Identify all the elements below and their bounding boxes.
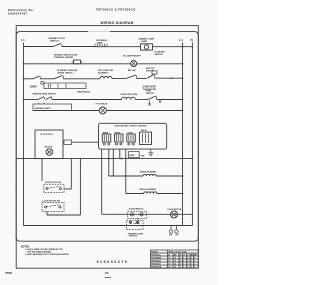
svg-text:1: 1: [191, 267, 192, 269]
svg-text:SURFACE UNITS: SURFACE UNITS: [35, 107, 52, 110]
svg-text:( BAKE / BROIL ): ( BAKE / BROIL ): [57, 72, 74, 75]
svg-text:DOOR SWITCH: DOOR SWITCH: [129, 208, 144, 210]
svg-text:BAKE ELEM.: BAKE ELEM.: [78, 90, 91, 93]
svg-text:POT. RELAY: POT. RELAY: [96, 103, 109, 106]
svg-text:1: 1: [183, 261, 184, 263]
svg-text:MOTOR: MOTOR: [45, 147, 53, 149]
svg-text:SWITCH: SWITCH: [155, 54, 164, 56]
svg-text:MODEL: MODEL: [151, 252, 159, 254]
svg-text:L1: L1: [21, 38, 25, 42]
svg-text:SWITCH: SWITCH: [146, 70, 154, 72]
svg-text:316000270: 316000270: [97, 260, 129, 264]
svg-text:FEF350CA: FEF350CA: [151, 260, 161, 263]
svg-text:CABINET LIGHT: CABINET LIGHT: [48, 37, 66, 40]
svg-text:SWITCH: SWITCH: [129, 236, 137, 238]
svg-text:ELECTRONIC OVEN CONTROL: ELECTRONIC OVEN CONTROL: [115, 126, 148, 128]
svg-text:ELEMENT: ELEMENT: [98, 72, 109, 74]
svg-text:2: 2: [187, 264, 188, 266]
svg-text:FEF350CC: FEF350CC: [151, 255, 161, 257]
svg-text:CLOCK TOD: CLOCK TOD: [40, 134, 53, 136]
svg-text:1: 1: [180, 267, 181, 269]
svg-text:N: N: [191, 38, 193, 42]
svg-text:2: 2: [194, 267, 195, 269]
svg-text:2: 2: [187, 267, 188, 269]
svg-text:OVEN VENT FAN: OVEN VENT FAN: [121, 93, 138, 96]
svg-text:WIRING DIAGRAM: WIRING DIAGRAM: [101, 21, 134, 25]
svg-text:2: 2: [180, 264, 181, 266]
svg-text:16: 16: [174, 267, 176, 269]
svg-text:BROIL ELEMENT: BROIL ELEMENT: [140, 189, 158, 191]
svg-text:1: 1: [183, 264, 184, 266]
svg-text:2: 2: [194, 261, 195, 263]
svg-text:BAKE ELEMENT: BAKE ELEMENT: [140, 170, 157, 173]
svg-text:1: 1: [191, 264, 192, 266]
svg-text:5995274427: 5995274427: [8, 12, 28, 16]
svg-text:DOOR LOCK SW.: DOOR LOCK SW.: [45, 182, 62, 184]
svg-text:AT LAMP RECEPT.: AT LAMP RECEPT.: [123, 54, 142, 57]
svg-text:SWITCH: SWITCH: [146, 93, 154, 95]
svg-text:1: 1: [191, 261, 192, 263]
svg-text:THERMAL LIMITER: THERMAL LIMITER: [54, 56, 74, 59]
svg-text:GND: GND: [141, 155, 146, 157]
svg-text:FEF350CC & FEF350CO: FEF350CC & FEF350CO: [96, 8, 136, 12]
svg-text:LAMP: LAMP: [141, 40, 148, 43]
svg-text:2: 2: [194, 258, 195, 260]
svg-text:3: 3: [180, 258, 181, 260]
svg-text:3: 3: [194, 264, 195, 266]
svg-text:1: 1: [183, 258, 184, 260]
svg-text:SWITCH: SWITCH: [50, 41, 59, 43]
svg-text:NOTES:: NOTES:: [21, 247, 30, 249]
svg-text:LAMP: LAMP: [97, 41, 104, 44]
svg-text:12: 12: [174, 258, 176, 260]
svg-text:16: 16: [168, 267, 170, 269]
svg-text:FEF350BW: FEF350BW: [151, 258, 161, 260]
svg-text:7588: 7588: [5, 271, 12, 275]
svg-text:3: 3: [187, 261, 188, 263]
svg-text:1: 1: [183, 267, 184, 269]
svg-text:HI BAKE / BROIL ELEM.: HI BAKE / BROIL ELEM.: [54, 53, 78, 56]
svg-text:18: 18: [168, 258, 170, 260]
svg-text:12: 12: [168, 261, 170, 263]
svg-text:10: 10: [174, 261, 176, 263]
svg-text:FEF350CW: FEF350CW: [151, 267, 161, 269]
svg-text:L1: L1: [179, 38, 183, 42]
svg-text:BAKE: BAKE: [30, 85, 37, 88]
svg-text:BR. SW.: BR. SW.: [128, 70, 136, 72]
svg-text:15: 15: [105, 271, 109, 275]
svg-text:FEF350CS: FEF350CS: [151, 264, 161, 266]
svg-text:WIRE COLOR CODE: WIRE COLOR CODE: [168, 252, 187, 254]
svg-text:W: W: [168, 255, 170, 257]
svg-text:1: 1: [191, 258, 192, 260]
svg-text:INFINITE HEAT SWITCH: INFINITE HEAT SWITCH: [33, 92, 57, 95]
svg-text:3- SWITCHES ARE IN OFF POSITIO: 3- SWITCHES ARE IN OFF POSITION AS SHOWN…: [25, 253, 70, 256]
svg-text:XFMR: XFMR: [129, 155, 135, 157]
svg-text:2: 2: [180, 261, 181, 263]
